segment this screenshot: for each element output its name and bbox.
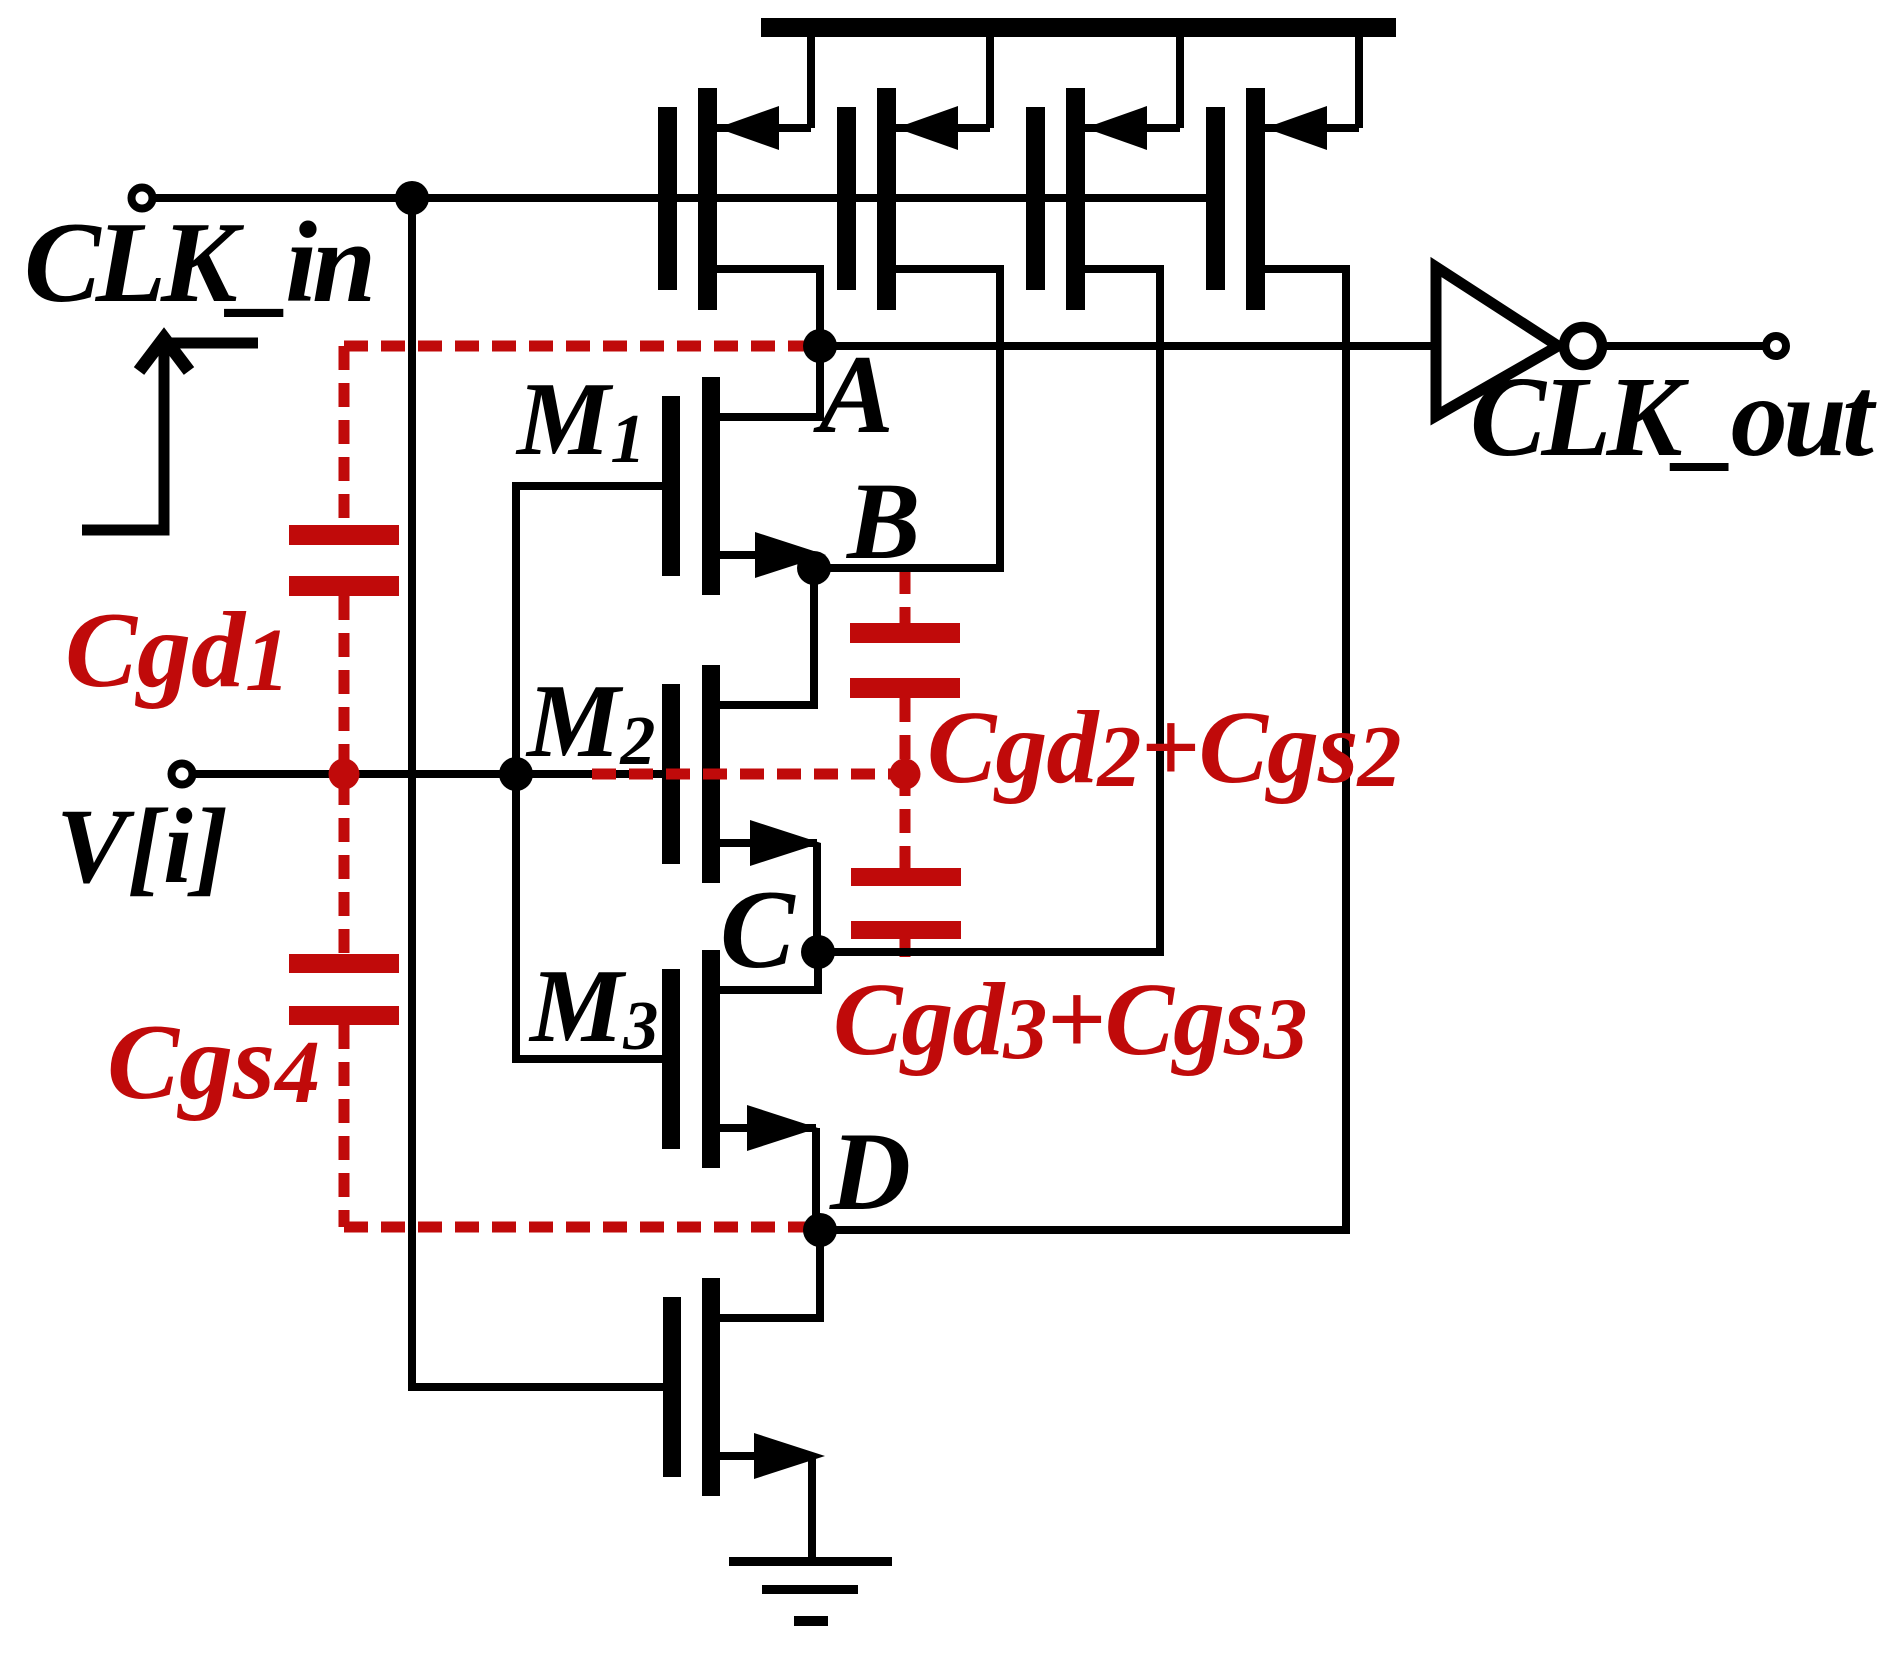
node C	[801, 935, 835, 969]
transistor P1 (PMOS)	[658, 37, 820, 346]
wire red dashed vertical Cgd1/Cgs4 column upper segment	[339, 346, 350, 525]
transistor P4 (PMOS)	[1206, 37, 1359, 1230]
wire node A to inverter	[820, 342, 1440, 350]
node CLK_in junction	[395, 181, 429, 215]
wire CLK_in vertical to M4 gate	[412, 198, 663, 1387]
wire red dashed vertical Cgd1 to V[i] to Cgs4	[339, 596, 350, 954]
wire node B to P2 drain	[814, 564, 1004, 572]
svg-text:CLK_in: CLK_in	[24, 199, 371, 326]
wire red dashed horizontal Cgs4 column to node D	[344, 1222, 820, 1233]
svg-text:B: B	[845, 460, 920, 582]
capacitor Cgs4	[289, 954, 399, 973]
wire red dashed vertical Cgd3+Cgs3 to node C wire	[900, 939, 911, 957]
wire red dashed horizontal V[i] row to Cgd2/Cgs2 column	[592, 769, 905, 780]
node gate-bus junction on V[i]	[499, 757, 533, 791]
svg-text:V[i]: V[i]	[56, 788, 228, 906]
svg-text:Cgd2+Cgs2: Cgd2+Cgs2	[927, 690, 1400, 806]
wire node C to P3 drain	[818, 948, 1164, 956]
transistor M4 (NMOS)	[663, 1230, 825, 1561]
transistor P2 (PMOS)	[837, 37, 1000, 568]
node red junction at Cgd2/Cgs2 column	[890, 759, 921, 790]
terminal V[i]	[172, 764, 193, 785]
ground	[729, 1557, 892, 1626]
op-amp U1 (output inverter)	[1436, 267, 1602, 416]
capacitor Cgd2+Cgs2	[850, 623, 960, 643]
wire red dashed horizontal node-A to Cgd1 column	[344, 341, 820, 352]
svg-text:CLK_out: CLK_out	[1470, 353, 1877, 480]
terminal CLK_in	[132, 188, 153, 209]
capacitor Cgd1	[289, 525, 399, 545]
wire red dashed vertical Cgd2+Cgs2 to V[i] row	[900, 698, 911, 868]
wire CLK_in gate line	[150, 194, 1222, 202]
transistor M1 (NMOS)	[662, 346, 826, 595]
svg-text:A: A	[813, 333, 894, 457]
transistor M3 (NMOS)	[662, 950, 818, 1230]
power rail (top bus)	[761, 18, 1396, 37]
node B	[797, 551, 831, 585]
wire inverter output to CLK_out terminal	[1602, 342, 1765, 350]
node D	[803, 1213, 837, 1247]
svg-text:C: C	[720, 868, 796, 992]
wire red dashed vertical node B to Cgd2+Cgs2	[900, 570, 911, 623]
node red junction on V[i] at Cgd1 column	[329, 759, 360, 790]
svg-text:Cgd3+Cgs3: Cgd3+Cgs3	[833, 962, 1306, 1078]
transistor P3 (PMOS)	[1026, 37, 1180, 952]
wire node D to P4 drain	[820, 1226, 1350, 1234]
wire red dashed vertical Cgs4 to node-D row	[339, 1025, 350, 1227]
terminal CLK_out	[1766, 336, 1786, 356]
wire gate bus M1/M3	[516, 486, 662, 1059]
capacitor Cgd3+Cgs3	[851, 868, 961, 886]
svg-text:D: D	[829, 1110, 911, 1234]
node A	[803, 329, 837, 363]
wire V[i] to M2 gate	[190, 770, 664, 778]
transistor M2 (NMOS)	[662, 568, 821, 952]
clock edge symbol	[82, 338, 258, 530]
